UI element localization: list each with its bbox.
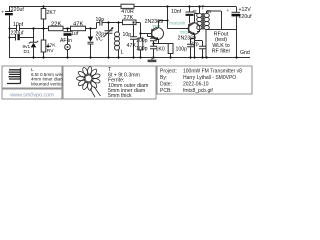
varactor diode (88, 37, 94, 45)
info bar website (2, 89, 62, 99)
wire 100p TR2 branch (191, 39, 195, 58)
wire x167 vertical (167, 7, 169, 29)
svg-text:22p: 22p (190, 42, 199, 48)
transformer T (193, 5, 212, 29)
capacitor 10nf decoupling right (171, 9, 194, 16)
svg-text:2K7: 2K7 (47, 10, 56, 16)
svg-text:D1: D1 (24, 49, 30, 54)
capacitor 100p feedback upper (136, 38, 157, 44)
svg-text:27K: 27K (124, 15, 134, 21)
svg-text:2022-06-10: 2022-06-10 (183, 81, 209, 87)
wire transformer secondary bottom to ground (206, 30, 208, 58)
inductor L coil (115, 32, 124, 56)
wire varactor branch (90, 29, 92, 58)
wire RV vertical (43, 29, 45, 58)
svg-text:www.sm0vpo.com: www.sm0vpo.com (9, 92, 54, 98)
wire TR1 collector up (159, 21, 168, 28)
svg-text:TR1: TR1 (152, 24, 161, 30)
svg-text:Mounted vertical: Mounted vertical (31, 81, 65, 86)
resistor 47K base bias (127, 38, 143, 50)
wire emitter junction (154, 43, 171, 45)
wire 1K0 leads (170, 54, 172, 58)
capacitor 1uf electrolytic (64, 31, 79, 37)
resistor 470R in rail (121, 4, 134, 15)
wire +12V top rail (9, 6, 236, 8)
capacitor 220uf right electrolytic (227, 9, 253, 20)
svg-text:220uf: 220uf (239, 14, 253, 20)
svg-text:+: + (227, 9, 230, 14)
svg-text:RV: RV (47, 48, 54, 54)
svg-text:fmtx8_pcb.gif: fmtx8_pcb.gif (183, 88, 213, 94)
node AF in connector (60, 38, 72, 50)
wire 22p branch (195, 41, 203, 58)
node RF out annotation box (206, 30, 237, 58)
svg-text:10nf: 10nf (171, 9, 182, 15)
wire 10nf right leads (189, 7, 191, 24)
trimmer capacitor VC 20p (96, 27, 114, 43)
svg-text:220uf: 220uf (11, 7, 25, 13)
wire 2K7 vertical (43, 7, 45, 29)
svg-text:VC: VC (96, 37, 103, 43)
svg-text:Harry Lythall - SM0VPO: Harry Lythall - SM0VPO (183, 75, 236, 81)
capacitor 100p feedback lower (136, 46, 157, 52)
wire coil branch (118, 23, 120, 58)
capacitor C1 220uf top left electrolytic (1, 7, 24, 16)
wire node branch 10nf (10, 28, 34, 30)
capacitor 10p to ground (123, 32, 138, 39)
svg-text:100p: 100p (176, 46, 188, 52)
transistor TR1 2N2369 (145, 19, 164, 40)
wire x33 vertical (33, 29, 35, 58)
svg-text:1K0: 1K0 (156, 46, 165, 52)
wire 100p chain top (148, 34, 154, 39)
wire 100p chain middle (153, 41, 155, 47)
wire node line (33, 28, 96, 30)
svg-text:AF in: AF in (60, 38, 72, 44)
ground symbol (148, 58, 157, 63)
transistor TR2 2N2369 (178, 23, 200, 42)
capacitor C3 220uf left electrolytic (11, 31, 25, 41)
svg-text:8t: 8t (207, 9, 212, 15)
svg-text:10p: 10p (96, 17, 105, 23)
svg-text:220uf: 220uf (11, 31, 25, 37)
svg-text:5mm thick: 5mm thick (108, 93, 132, 99)
svg-text:100p: 100p (136, 46, 148, 52)
svg-text:L: L (121, 49, 124, 55)
svg-text:1uf: 1uf (71, 31, 79, 37)
info box toroid T (63, 66, 156, 99)
svg-text:100mW FM Transmitter v8: 100mW FM Transmitter v8 (183, 69, 242, 75)
svg-text:47K: 47K (127, 43, 137, 49)
wire TR1 emitter down (158, 40, 160, 44)
svg-text:By:: By: (160, 75, 167, 81)
resistor 22K (49, 22, 64, 31)
svg-text:Heatsink: Heatsink (169, 21, 187, 26)
svg-text:22K: 22K (51, 22, 61, 28)
resistor 27K (123, 15, 137, 25)
capacitor 22p (190, 42, 206, 49)
svg-text:47K: 47K (47, 42, 56, 48)
svg-text:Date:: Date: (160, 81, 172, 87)
capacitor 10p coupling (96, 17, 105, 26)
capacitor 100p TR2 (176, 44, 195, 52)
svg-text:+: + (1, 11, 4, 16)
zener diode D1 9v1 (23, 41, 39, 54)
svg-text:10nf: 10nf (13, 22, 24, 28)
wire transformer primary bottom stub (197, 30, 200, 32)
svg-text:Project:: Project: (160, 69, 177, 75)
wire trimmer branch (108, 23, 110, 58)
resistor 1K0 emitter (156, 44, 174, 54)
info box coil L (2, 66, 65, 88)
wire 1uf branch (67, 29, 69, 58)
svg-text:+12V: +12V (239, 7, 252, 13)
potentiometer RV 47K (41, 40, 56, 54)
capacitor C2 10nf left (13, 22, 24, 31)
wire TR1 base (141, 33, 152, 35)
junction dots (9, 5, 238, 58)
wire upper node line (97, 22, 141, 24)
wire TR2 collector (195, 14, 200, 23)
wire 100p chain bottom (153, 49, 155, 58)
svg-text:Gnd: Gnd (240, 50, 250, 56)
svg-text:47K: 47K (73, 22, 83, 28)
wire 27K to base (140, 23, 142, 58)
wire branch 220uf lower (10, 37, 34, 39)
svg-text:6t: 6t (193, 9, 198, 15)
wire transformer primary top to rail (199, 7, 201, 14)
info box project (157, 66, 252, 94)
wire node step up (96, 23, 98, 29)
wire ground bottom rail (9, 57, 250, 59)
wire transformer secondary top to RF out (207, 11, 222, 30)
wire +12V vertical with 220uf (236, 7, 238, 58)
wire left vertical (9, 7, 11, 58)
resistor 47K horizontal (71, 22, 86, 31)
resistor 2K7 (41, 9, 56, 20)
svg-text:PCB:: PCB: (160, 88, 172, 94)
svg-text:RF filter: RF filter (212, 48, 231, 54)
svg-text:100p: 100p (136, 38, 148, 44)
wire TR2 base line (168, 28, 189, 30)
svg-text:10p: 10p (123, 32, 132, 38)
wire 10p to ground branch (133, 23, 135, 58)
wire TR2 emitter down (194, 35, 196, 58)
